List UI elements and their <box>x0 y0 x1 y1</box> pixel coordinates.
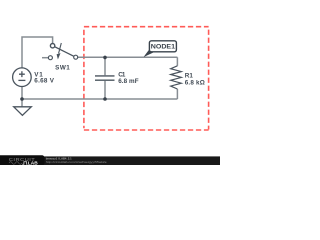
svg-text:SW1: SW1 <box>55 65 70 72</box>
svg-text:6.8 kΩ: 6.8 kΩ <box>185 79 205 86</box>
svg-text:LAB: LAB <box>28 160 39 165</box>
svg-text:6.8 mF: 6.8 mF <box>118 78 139 85</box>
svg-text:6.68 V: 6.68 V <box>34 78 54 85</box>
svg-text:NODE1: NODE1 <box>151 43 176 50</box>
svg-text:http://circuitlab.com/c/swhset: http://circuitlab.com/c/swhsetgyy/55wk2e <box>46 160 107 164</box>
